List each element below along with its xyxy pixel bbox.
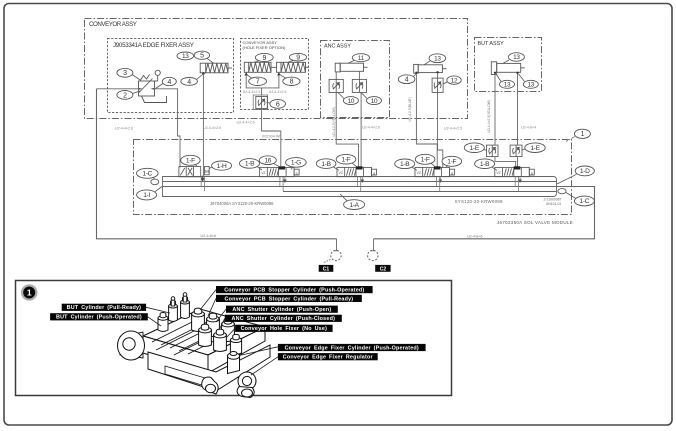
3D cylinder: BUT push-operated port: [181, 293, 190, 319]
svg-text:1-D: 1-D: [580, 168, 590, 175]
svg-text:VZ: VZ: [339, 171, 343, 175]
cylinder 13 (BUT cylinder): [491, 62, 524, 75]
svg-text:Conveyor Hole Fixer (No Use): Conveyor Hole Fixer (No Use): [241, 326, 328, 332]
callout chip: Conveyor Edge Fixer Cylinder (Push-Operated) (edge-cyl): [278, 344, 426, 352]
svg-text:ANC Shutter Cylinder (Push-Clo: ANC Shutter Cylinder (Push-Closed): [232, 316, 336, 322]
node C2: [368, 239, 391, 273]
valve1 output arrow: [201, 176, 204, 182]
svg-text:1-F: 1-F: [186, 158, 195, 165]
svg-text:12: 12: [451, 77, 458, 84]
leader balloon-13b: [424, 61, 430, 65]
svg-text:8: 8: [290, 79, 294, 86]
svg-text:1-B: 1-B: [245, 161, 255, 168]
wire regulator output: [155, 89, 181, 168]
connector oval right (1-C): [558, 189, 566, 194]
regulator drain passage: [142, 96, 167, 103]
balloon 1 (module): [566, 137, 575, 142]
manifold block front face: [143, 336, 208, 373]
port marks BUT cylinder: [494, 72, 496, 74]
leader chip-anc-open: [216, 309, 226, 322]
leader balloon-4a: [156, 84, 164, 89]
svg-text:1-F: 1-F: [342, 156, 351, 163]
enclosure J9053341A EDGE FIXER ASSY: [108, 39, 234, 113]
balloon 10b: [367, 97, 382, 105]
svg-text:J9053341A EDGE FIXER ASSY: J9053341A EDGE FIXER ASSY: [113, 42, 194, 49]
balloon 4a: [162, 77, 176, 86]
balloon 1-C: [137, 168, 159, 178]
leader balloon-1E-right: [522, 149, 525, 150]
leader balloon-1Cr: [566, 193, 576, 199]
node C1: [319, 239, 341, 273]
valve1 manifold feed wires: [200, 177, 202, 186]
callout chip: Conveyor Edge Fixer Regulator (edge-reg): [278, 353, 378, 361]
svg-text:LD-4-4×2.5(YELLOW): LD-4-4×2.5(YELLOW): [487, 100, 491, 133]
wire cylinder 5 to valve 1-H: [202, 73, 204, 177]
callout chip: Conveyor PCB Stopper Cylinder (Pull-Ready) (pcb-pull): [216, 295, 362, 303]
balloon 9b: [289, 53, 306, 61]
svg-text:CONVEYOR ASSY: CONVEYOR ASSY: [89, 21, 137, 28]
svg-text:(HOLE FIXER OPTION): (HOLE FIXER OPTION): [243, 45, 287, 50]
svg-text:1-A: 1-A: [349, 202, 359, 209]
leader balloon-2: [132, 91, 140, 94]
leader balloon-16: [273, 163, 280, 167]
svg-text:ANC ASSY: ANC ASSY: [324, 44, 351, 50]
balloon 1-H: [212, 161, 232, 170]
leader balloon-1C: [153, 177, 155, 179]
svg-text:7: 7: [256, 79, 260, 86]
wire anc right port: [358, 71, 360, 79]
solenoid valve 1-F/1-H: [179, 167, 209, 177]
svg-text:5: 5: [200, 53, 204, 60]
balloon 1-A: [344, 200, 365, 210]
balloon 1-B3: [316, 159, 336, 169]
enclosure CONVEYOR ASSY: [85, 19, 468, 119]
leader balloon-1E-left: [484, 150, 488, 151]
leader balloon-11: [348, 61, 354, 64]
leader balloon-4c: [414, 74, 417, 77]
3D cylinder: PCB stopper push cylinder: [192, 308, 205, 331]
wire main supply rail right: [374, 187, 595, 239]
leader balloon-10a: [338, 93, 344, 99]
valve5 output stub: [519, 178, 522, 183]
svg-text:1-B: 1-B: [480, 161, 490, 168]
leader chip-hole: [226, 328, 235, 338]
leader chip-edge-cyl: [240, 347, 278, 356]
balloon 1-F4a: [415, 154, 435, 164]
balloon 13b: [429, 54, 446, 63]
svg-text:J6702350A SOL VALVE MODULE: J6702350A SOL VALVE MODULE: [497, 220, 573, 225]
svg-text:U2-4-4×2.5: U2-4-4×2.5: [269, 90, 287, 94]
svg-text:4: 4: [168, 79, 172, 86]
balloon 1-G: [286, 158, 307, 168]
legend box: [16, 281, 452, 396]
valve5 manifold feed wires: [514, 177, 516, 186]
manifold block right face: [208, 327, 265, 373]
svg-text:LD-4-2.5(YELLOW): LD-4-2.5(YELLOW): [332, 107, 336, 137]
svg-text:VZ: VZ: [496, 171, 500, 175]
3D cylinder: station nub a: [158, 313, 168, 332]
regulator (edge fixer): [139, 70, 161, 96]
solenoid valve 1-B/1-F (BUT): [495, 167, 535, 176]
balloon 1-F4b: [442, 156, 462, 166]
balloon 4b: [181, 78, 198, 86]
balloon 2: [117, 91, 133, 100]
leader balloon-8: [280, 75, 287, 79]
valve2 output stub: [284, 178, 287, 183]
valve3 output stub: [361, 178, 364, 183]
svg-text:C1: C1: [323, 266, 330, 272]
callout chip: ANC Shutter Cylinder (Push-Closed) (anc-close): [225, 315, 342, 323]
cylinder 13 (PCB stopper): [414, 64, 447, 73]
balloon 11: [352, 54, 369, 62]
wire regulator input: [97, 88, 139, 90]
valve4 manifold feed wires: [436, 177, 438, 186]
balloon 1-E-left: [464, 143, 484, 153]
wire but wire B2: [517, 157, 519, 168]
cylinder 5 (edge fixer cylinder): [200, 63, 232, 73]
svg-text:16: 16: [264, 157, 271, 164]
balloon 13d: [500, 80, 515, 88]
balloon 12: [447, 76, 461, 84]
leader balloon-1F3: [352, 163, 357, 167]
leader balloon-1B3: [334, 167, 340, 170]
connector oval left (1-C): [151, 179, 159, 185]
svg-text:BUT ASSY: BUT ASSY: [478, 41, 505, 47]
balloon 9a: [255, 53, 273, 61]
port arrows 7/8: [244, 72, 280, 75]
balloon 6: [270, 100, 286, 109]
3D cylinder: spare port: [230, 334, 241, 354]
balloon 13e: [523, 80, 538, 88]
edge fixer cylinder fitting: [228, 355, 240, 374]
big left fitting body: [120, 332, 143, 358]
callout chip: ANC Shutter Cylinder (Push-Open) (anc-open): [226, 306, 338, 314]
manifold block top face: [143, 309, 265, 355]
svg-text:U2-4-4×2.6: U2-4-4×2.6: [115, 127, 133, 131]
svg-text:U2-4-2.5(BLUE): U2-4-2.5(BLUE): [408, 97, 412, 121]
leader balloon-9a: [254, 61, 259, 63]
wire hole fixer drop to valve 6: [261, 88, 263, 96]
svg-text:3: 3: [123, 70, 127, 77]
wire cyl13-valve12 link: [437, 73, 439, 78]
balloon 7: [249, 77, 267, 86]
svg-text:13: 13: [513, 54, 520, 61]
svg-text:1-H: 1-H: [217, 163, 227, 170]
leader balloon-3: [132, 75, 141, 81]
svg-text:9: 9: [263, 55, 267, 62]
balloon 1-B2: [240, 159, 260, 169]
wire but wire B: [517, 74, 519, 146]
wire main supply rail: [97, 89, 337, 239]
leader balloon-4b: [197, 75, 203, 80]
balloon 13c: [508, 53, 524, 62]
wire anc wire A to valve: [336, 93, 358, 168]
svg-text:U2-4-4×2.5: U2-4-4×2.5: [444, 127, 462, 131]
svg-text:1-F: 1-F: [421, 157, 430, 164]
port marks cylinder 13: [415, 72, 417, 74]
wire cyl13 wire to valve4: [416, 74, 437, 169]
svg-text:4: 4: [405, 77, 409, 84]
enclosure J6702350A SOL VALVE MODULE: [134, 140, 572, 215]
leader balloon-12: [443, 82, 447, 84]
leader chip-pcb-push: [200, 290, 216, 310]
3D cylinder: PCB stopper pull cylinder: [207, 313, 220, 336]
svg-text:SYS120-20-KRW0098: SYS120-20-KRW0098: [455, 199, 503, 204]
balloon 1-B4: [395, 159, 415, 169]
svg-text:J6704006A SY3120-20-KRW0096: J6704006A SY3120-20-KRW0096: [210, 201, 274, 206]
leader balloon-7: [247, 75, 253, 79]
balloon 1-B5: [475, 159, 495, 169]
sub-base front step: [165, 366, 205, 386]
balloon 1: [574, 129, 590, 138]
balloon 1-D: [575, 166, 594, 176]
svg-text:Conveyor Edge Fixer Regulator: Conveyor Edge Fixer Regulator: [283, 355, 374, 361]
3D cylinder: ANC shutter close cylinder: [199, 324, 212, 346]
cylinder 11 (ANC shutter): [335, 63, 367, 72]
leader balloon-13e: [519, 74, 525, 82]
solenoid valve 1-B/1-F (PCB stopper): [415, 167, 455, 176]
3D cylinder: ANC shutter open cylinder: [222, 318, 235, 341]
3D cylinder: BUT pull-ready port: [169, 297, 178, 322]
flow-control valve 1-E left: [487, 145, 499, 157]
svg-text:1-E: 1-E: [470, 145, 480, 152]
svg-text:U2-4-8×6: U2-4-8×6: [467, 234, 482, 238]
svg-text:10: 10: [371, 98, 378, 105]
svg-text:C2: C2: [380, 266, 387, 272]
leader balloon-1A: [340, 194, 347, 201]
elbow fitting lower left: [202, 377, 218, 394]
svg-text:U2-4-8×4: U2-4-8×4: [521, 126, 536, 130]
wire anc left port: [335, 72, 337, 80]
svg-text:1: 1: [581, 131, 585, 138]
svg-text:Conveyor PCB Stopper Cylinder: Conveyor PCB Stopper Cylinder (Push-Oper…: [224, 288, 364, 294]
leader chip-edge-reg: [251, 357, 278, 375]
cylinder 9 right (hole fixer): [277, 62, 306, 72]
hole fixer cylinder tails: [271, 66, 277, 68]
svg-text:AN101-01: AN101-01: [546, 202, 561, 206]
leader balloon-1B4: [412, 167, 417, 170]
leader balloon-13c: [503, 60, 509, 63]
callout chip: Conveyor PCB Stopper Cylinder (Push-Operated) (pcb-push): [216, 286, 373, 294]
balloon 1-I: [137, 190, 157, 200]
sub-base slab: [148, 345, 270, 391]
callout chip: Conveyor Hole Fixer (No Use) (hole-nouse): [235, 325, 333, 333]
flow-control valve 12: [432, 78, 443, 92]
svg-text:1-B: 1-B: [321, 161, 331, 168]
leader balloon-1F1: [195, 165, 198, 167]
svg-text:U2-4-4×2.6: U2-4-4×2.6: [362, 125, 380, 129]
svg-text:13: 13: [504, 81, 511, 88]
valve4 output stub: [439, 178, 442, 183]
svg-text:BUT Cylinder (Pull-Ready): BUT Cylinder (Pull-Ready): [67, 305, 142, 311]
leader chip-but-pull: [146, 307, 170, 313]
balloon 1-F1: [181, 155, 200, 165]
leader chip-but-push: [148, 317, 161, 326]
svg-text:Conveyor Edge Fixer Cylinder (: Conveyor Edge Fixer Cylinder (Push-Opera…: [285, 345, 419, 351]
svg-text:13: 13: [182, 53, 189, 60]
enclosure BUT ASSY: [475, 38, 542, 92]
svg-text:M: M: [205, 169, 209, 174]
station divider lines: [152, 319, 234, 355]
svg-text:U2-4-4×2.5: U2-4-4×2.5: [243, 90, 261, 94]
leader balloon-1F4b: [446, 166, 449, 168]
leader balloon-1H: [209, 167, 212, 169]
svg-text:Conveyor PCB Stopper Cylinder: Conveyor PCB Stopper Cylinder (Pull-Read…: [224, 296, 353, 302]
solenoid valve 1-B/1-F (ANC): [337, 167, 377, 176]
balloon 1-Cr: [574, 196, 594, 206]
leader balloon-5: [207, 58, 214, 63]
svg-text:11: 11: [358, 55, 365, 62]
svg-text:1-G: 1-G: [291, 160, 301, 167]
bottom right fittings: [202, 352, 256, 398]
balloon 1-F3: [336, 154, 356, 164]
wire valve 6 to valve 16: [262, 110, 281, 167]
svg-text:U2-4-4×2.6: U2-4-4×2.6: [203, 126, 221, 130]
svg-text:6: 6: [276, 101, 280, 108]
wire valve12 wire to valve4: [438, 92, 443, 168]
svg-text:U2-4-8×6: U2-4-8×6: [201, 234, 216, 238]
balloon 13a: [177, 52, 194, 60]
svg-text:U2-4-4×2.6: U2-4-4×2.6: [237, 121, 255, 125]
svg-text:2: 2: [123, 92, 127, 99]
valve2 manifold feed wires: [279, 177, 281, 186]
wire anc wire B to valve: [359, 93, 361, 168]
svg-text:BUT Cylinder (Push-Operated): BUT Cylinder (Push-Operated): [56, 315, 142, 321]
3D manifold illustration: [118, 309, 271, 391]
svg-text:VZ: VZ: [261, 171, 265, 175]
balloon 10a: [343, 97, 358, 105]
svg-text:1-C: 1-C: [580, 198, 590, 205]
balloon 8: [283, 77, 300, 86]
flow-control valve 6 (hole fixer speed ctrl): [256, 97, 267, 109]
enclosure CONVEYOR ASSY (HOLE FIXER OPTION): [241, 39, 309, 110]
svg-text:1-E: 1-E: [530, 145, 540, 152]
svg-text:1-B: 1-B: [400, 161, 410, 168]
balloon 5: [194, 51, 209, 59]
leader chip-pcb-pull: [208, 298, 216, 316]
leader balloon-1B2: [258, 167, 263, 170]
svg-text:9: 9: [296, 55, 300, 62]
leader balloon-9b: [288, 61, 293, 63]
svg-text:4: 4: [187, 79, 191, 86]
balloon 3: [117, 68, 133, 77]
leader balloon-1I: [155, 187, 162, 192]
3D cylinder: hole fixer port: [214, 329, 227, 351]
leader balloon-1B5: [492, 167, 497, 170]
enclosure ANC ASSY: [321, 41, 390, 118]
svg-text:1: 1: [27, 288, 32, 298]
svg-text:1-I: 1-I: [143, 192, 150, 199]
leader balloon-10b: [361, 93, 367, 99]
balloon 1-E-right: [525, 143, 545, 153]
svg-text:13: 13: [434, 55, 441, 62]
balloon 16: [259, 156, 276, 165]
svg-text:VZ: VZ: [417, 171, 421, 175]
svg-text:K02S04-W6: K02S04-W6: [262, 135, 281, 139]
port mark cylinder 5: [202, 72, 205, 75]
svg-text:ANC Shutter Cylinder (Push-Ope: ANC Shutter Cylinder (Push-Open): [232, 307, 331, 313]
legend item marker 1: [21, 284, 38, 301]
wire but wire A2: [495, 157, 516, 168]
flow-control valve 1-E right: [510, 145, 522, 157]
svg-text:10: 10: [348, 98, 355, 105]
svg-text:1-F: 1-F: [447, 159, 456, 166]
cylinder 9 left (hole fixer): [244, 62, 271, 72]
leader balloon-1G: [291, 167, 293, 170]
balloon 4c: [398, 75, 415, 84]
wire but wire A: [494, 74, 496, 146]
leader balloon-1F4a: [431, 163, 436, 167]
wire hole fixer U pipe: [246, 72, 279, 88]
svg-text:2-J1000087: 2-J1000087: [544, 197, 562, 201]
manifold body (SOL valve module): [163, 177, 557, 197]
svg-text:1-C: 1-C: [142, 171, 152, 178]
valve3 manifold feed wires: [357, 177, 359, 186]
svg-text:13: 13: [528, 81, 535, 88]
flow-control valve 10 left: [329, 79, 343, 92]
leader balloon-6: [267, 102, 271, 105]
callout chip: BUT Cylinder (Pull-Ready) (but-pull): [62, 304, 146, 312]
leader balloon-13d: [496, 74, 501, 82]
solenoid valve 16/1-G: [260, 167, 300, 176]
leader balloon-1D: [557, 174, 577, 184]
flow-control valve 10 right: [352, 79, 366, 92]
callout chip: BUT Cylinder (Push-Operated) (but-push): [50, 313, 148, 321]
edge fixer regulator fitting: [238, 372, 256, 390]
leader chip-anc-close: [219, 318, 225, 330]
